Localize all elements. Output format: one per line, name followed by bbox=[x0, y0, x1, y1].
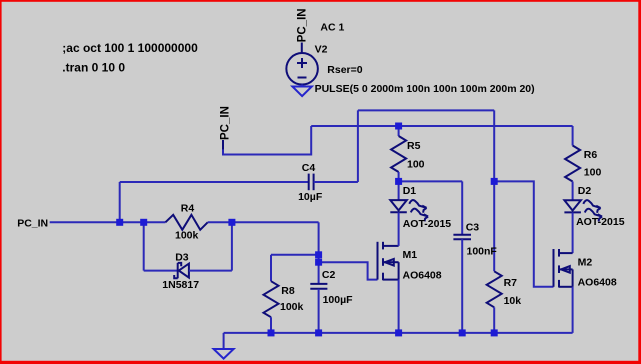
wire C4 row left bbox=[120, 181, 309, 183]
wire ground stem bbox=[223, 333, 225, 349]
svg-text:PC_IN: PC_IN bbox=[219, 106, 231, 140]
junction C2 bottom bbox=[315, 329, 322, 336]
junction x119.7 main row bbox=[116, 219, 123, 226]
svg-text:100k: 100k bbox=[175, 229, 199, 241]
junction C2 top bbox=[315, 251, 322, 258]
wire R8 top horizontal bbox=[271, 254, 319, 256]
svg-text:C4: C4 bbox=[302, 162, 316, 174]
wire D3 cathode lead bbox=[144, 270, 178, 272]
wire y126 horizontal bbox=[311, 125, 572, 127]
junction R4 left bbox=[140, 219, 147, 226]
capacitor C3 bbox=[453, 235, 471, 240]
capacitor C2 bbox=[310, 284, 327, 289]
wire main row right bbox=[208, 221, 319, 223]
wire top horizontal y110 bbox=[358, 109, 494, 111]
wire D2 cathode to M2 drain bbox=[572, 212, 574, 253]
junction R8 bottom bbox=[268, 329, 275, 336]
wire R8 top lead bbox=[270, 255, 272, 281]
wire R6 top lead bbox=[572, 126, 574, 146]
svg-text:100µF: 100µF bbox=[323, 294, 354, 306]
svg-text:10µF: 10µF bbox=[298, 191, 323, 203]
capacitor C4 bbox=[309, 174, 314, 191]
wire bottom rail bbox=[224, 332, 573, 334]
mosfet M1 bbox=[378, 242, 399, 280]
wire R5 top lead bbox=[398, 126, 400, 136]
svg-text:10k: 10k bbox=[504, 295, 522, 307]
wire R7 bottom lead bbox=[493, 307, 495, 333]
wire main row left bbox=[50, 221, 166, 223]
ground (bottom) bbox=[214, 349, 234, 359]
voltage source V2 circle bbox=[286, 53, 318, 85]
svg-text:.tran 0 10 0: .tran 0 10 0 bbox=[62, 60, 125, 74]
svg-text:R5: R5 bbox=[407, 140, 421, 152]
svg-text:D1: D1 bbox=[403, 185, 417, 197]
wire M2 gate branch bbox=[494, 181, 553, 286]
wire C2 column upper bbox=[318, 222, 320, 284]
mosfet M2 bbox=[554, 249, 573, 288]
svg-text:R6: R6 bbox=[584, 149, 598, 161]
wire D1 cathode to M1 drain bbox=[398, 212, 400, 246]
svg-text:100nF: 100nF bbox=[467, 245, 498, 257]
svg-text:R8: R8 bbox=[281, 285, 295, 297]
svg-text:AOT-2015: AOT-2015 bbox=[403, 218, 452, 230]
LED D1 bbox=[390, 200, 428, 221]
junction R5 top bbox=[395, 123, 402, 130]
wire C2 bottom bbox=[318, 289, 320, 333]
wire M2 source to rail bbox=[572, 287, 574, 333]
ground under V2 bbox=[292, 87, 311, 97]
wire from middle PC_IN label to y126 net bbox=[223, 126, 311, 155]
wire M1 gate bbox=[319, 262, 378, 279]
svg-text:C3: C3 bbox=[466, 221, 480, 233]
wire D3 right vertical bbox=[231, 222, 233, 270]
svg-text:PULSE(5 0 2000m 100n 100n 100m: PULSE(5 0 2000m 100n 100n 100m 200m 20) bbox=[315, 83, 535, 95]
diode D3 (schottky, pointing left) bbox=[174, 263, 189, 278]
svg-text:PC_IN: PC_IN bbox=[17, 218, 48, 230]
svg-text:D3: D3 bbox=[175, 252, 189, 264]
junction R4 right bbox=[228, 219, 235, 226]
wire C3 top bbox=[461, 181, 463, 234]
wire D3 left vertical bbox=[143, 222, 145, 270]
label pole for middle PC_IN bbox=[222, 140, 224, 150]
junction M1 source rail bbox=[395, 329, 402, 336]
resistor R4 bbox=[165, 215, 207, 230]
svg-text:AO6408: AO6408 bbox=[578, 276, 617, 288]
resistor R8 bbox=[264, 281, 279, 317]
svg-text:D2: D2 bbox=[578, 185, 592, 197]
wire R8 bottom lead bbox=[270, 317, 272, 333]
wire V2 bottom stub bbox=[301, 85, 303, 87]
wire vertical x119.7 bbox=[119, 182, 121, 222]
svg-text:M2: M2 bbox=[578, 257, 593, 269]
junction M1 gate wire bbox=[315, 259, 322, 266]
svg-text:1N5817: 1N5817 bbox=[162, 279, 199, 291]
wire vertical x357.9 bbox=[357, 110, 359, 182]
wire R6 bottom to D2 bbox=[572, 182, 574, 201]
svg-text:100k: 100k bbox=[280, 301, 304, 313]
wire D3 anode lead bbox=[189, 270, 232, 272]
LED D2 bbox=[564, 200, 602, 221]
resistor R5 bbox=[391, 136, 406, 172]
svg-text:100: 100 bbox=[584, 166, 602, 178]
junction C3 bottom bbox=[459, 329, 466, 336]
wire vertical x494 down to R7 bbox=[493, 110, 495, 271]
svg-text:AC 1: AC 1 bbox=[320, 22, 344, 34]
wire R5 bottom to D1 bbox=[398, 172, 400, 200]
svg-text:R4: R4 bbox=[181, 203, 195, 215]
svg-text:C2: C2 bbox=[322, 269, 336, 281]
svg-text:AOT-2015: AOT-2015 bbox=[576, 216, 625, 228]
junction R7 bottom bbox=[491, 329, 498, 336]
svg-text:;ac oct 100 1 100000000: ;ac oct 100 1 100000000 bbox=[62, 41, 198, 55]
wire M1 source to rail bbox=[398, 280, 400, 333]
junction R5 bottom bbox=[395, 178, 402, 185]
svg-text:M1: M1 bbox=[403, 249, 418, 261]
wire net A horizontal to C3 bbox=[399, 180, 463, 182]
wire C3 bottom bbox=[461, 239, 463, 333]
svg-text:V2: V2 bbox=[315, 44, 328, 56]
resistor R7 bbox=[487, 271, 502, 307]
label pole for top PC_IN bbox=[301, 43, 303, 54]
svg-text:PC_IN: PC_IN bbox=[297, 8, 309, 42]
svg-text:Rser=0: Rser=0 bbox=[327, 64, 362, 76]
svg-text:R7: R7 bbox=[504, 277, 518, 289]
wire C4 row right bbox=[314, 181, 358, 183]
resistor R6 bbox=[565, 146, 580, 182]
junction R7 top bbox=[491, 178, 498, 185]
svg-text:AO6408: AO6408 bbox=[403, 269, 442, 281]
svg-text:100: 100 bbox=[407, 158, 425, 170]
